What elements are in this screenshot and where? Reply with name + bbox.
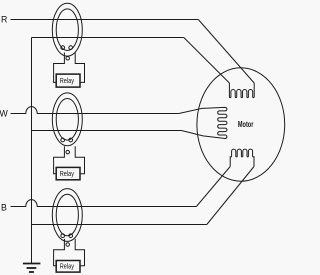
relay 3 body	[54, 239, 85, 266]
wire W return line from ground bus through CT2	[32, 130, 182, 132]
svg-text:Relay: Relay	[60, 171, 75, 178]
motor winding phase B (bottom coil)	[230, 149, 254, 166]
svg-text:R: R	[1, 15, 7, 25]
wire R phase line	[11, 19, 199, 21]
motor winding phase R (top coil)	[229, 83, 254, 98]
CT1 current transformer on phase R	[52, 3, 82, 56]
relay 3 box	[56, 261, 80, 273]
relay 1 body	[54, 53, 85, 83]
relay 1 terminal circle	[66, 57, 70, 61]
CT3 current transformer on phase B	[52, 189, 82, 242]
wire B return diagonal to motor bottom winding	[207, 167, 254, 225]
ground	[23, 264, 41, 273]
svg-text:Motor: Motor	[238, 119, 254, 129]
wire R phase diagonal to motor top winding	[198, 20, 254, 84]
CT2 current transformer on phase W	[52, 93, 82, 146]
relay 3 terminal circle	[66, 243, 70, 247]
wire R return line from ground bus through CT1	[32, 37, 184, 39]
motor winding phase W (left coil)	[179, 107, 227, 138]
relay 2 box	[56, 167, 80, 179]
relay 2 terminal circle	[66, 150, 70, 154]
wire B phase line with hop over ground bus	[11, 200, 197, 207]
relay 1 box	[56, 74, 80, 87]
svg-text:B: B	[1, 203, 7, 213]
wire B return line from ground bus through CT3	[32, 224, 207, 226]
relay 2 body	[54, 146, 85, 173]
svg-text:W: W	[0, 108, 9, 118]
svg-text:Relay: Relay	[60, 78, 75, 85]
wire R return diagonal to motor top winding	[184, 38, 230, 84]
wire W phase line with hop over ground bus	[11, 107, 179, 114]
wire ground bus vertical	[31, 38, 33, 264]
wire B phase diagonal to motor bottom winding	[196, 167, 230, 207]
svg-text:Relay: Relay	[60, 264, 75, 271]
motor M1 outline	[197, 68, 285, 181]
